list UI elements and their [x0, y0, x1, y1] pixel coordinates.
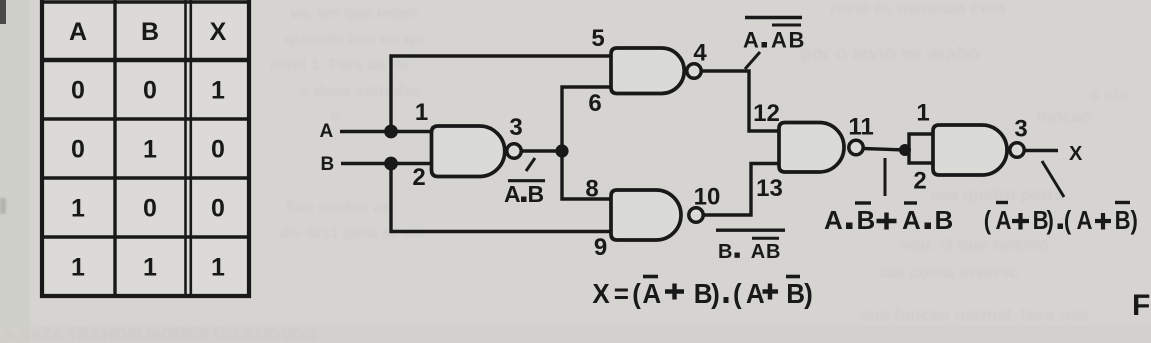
- table row line 3: [41, 176, 252, 179]
- svg-text:1: 1: [71, 254, 85, 282]
- svg-text:por o levio es arabo: por o levio es arabo: [800, 44, 980, 65]
- svg-text:0: 0: [143, 77, 157, 105]
- left edge marks: [0, 198, 6, 214]
- node U4 output junction: [899, 144, 911, 156]
- svg-text:1: 1: [916, 100, 929, 127]
- left edge dark mark: [0, 0, 6, 24]
- table left border: [40, 0, 44, 298]
- svg-text:4: 4: [693, 40, 707, 67]
- table row line 4: [41, 235, 252, 238]
- wire feedback bracket to U5 pins 1 and 2: [909, 134, 933, 163]
- svg-text:sua funcao normal. Isso nos: sua funcao normal. Isso nos: [860, 305, 1090, 324]
- svg-text:0: 0: [71, 136, 85, 164]
- svg-text:nivel es meninas t'em: nivel es meninas t'em: [830, 0, 1005, 18]
- svg-text:A: A: [320, 121, 334, 142]
- svg-text:9: 9: [594, 234, 607, 261]
- table bottom border: [41, 294, 252, 298]
- bar over B: [786, 275, 800, 279]
- svg-text:s ele: s ele: [1090, 85, 1128, 104]
- node B junction: [384, 157, 398, 171]
- svg-text:1: 1: [211, 77, 225, 105]
- bar over second A: [904, 201, 917, 204]
- bar over A: [643, 275, 658, 279]
- svg-text:12: 12: [753, 100, 780, 127]
- svg-text:0: 0: [71, 77, 85, 105]
- svg-text:sou. O que taremo: sou. O que taremo: [900, 235, 1049, 254]
- svg-text:X: X: [210, 18, 227, 46]
- slash connector for A.B label: [526, 158, 535, 171]
- U3 inverter bubble: [689, 208, 703, 222]
- svg-text:1: 1: [143, 254, 157, 282]
- svg-text:B: B: [141, 18, 159, 46]
- svg-text:11: 11: [848, 114, 873, 141]
- table double line B||X left: [184, 0, 187, 298]
- svg-text:do 4011 para se ob: do 4011 para se ob: [280, 225, 423, 242]
- U5 inverter bubble: [1010, 143, 1024, 157]
- svg-text:tas como inversc: tas como inversc: [880, 263, 1019, 282]
- table column line A|B: [113, 0, 116, 298]
- NAND gate U5 body: [933, 125, 1007, 175]
- svg-text:quando tem ou qu: quando tem ou qu: [285, 31, 424, 48]
- svg-text:13: 13: [756, 175, 783, 202]
- label NOT(B.NOT(AB)) at U3 output: [716, 230, 785, 263]
- wire U5 output to X: [1024, 149, 1058, 152]
- NAND gate U4 body: [779, 123, 844, 173]
- plus sign 1: [1012, 219, 1029, 223]
- label A.notB + notA.B at U4 output: [824, 158, 953, 235]
- svg-text:6: 6: [588, 90, 601, 117]
- NAND gate U3 body: [611, 190, 681, 240]
- label (notA+B).(A+notB) at U5 output: [984, 161, 1138, 235]
- svg-text:AAB: AAB: [743, 28, 804, 53]
- svg-text:1: 1: [143, 136, 157, 164]
- plus sign (wide): [877, 219, 897, 223]
- svg-text:8: 8: [585, 176, 598, 203]
- svg-text:3: 3: [1014, 116, 1027, 143]
- U4 inverter bubble: [849, 140, 863, 154]
- svg-text:Fi: Fi: [1132, 289, 1151, 322]
- bar over first B: [855, 201, 871, 204]
- wire U3 output to U4 pin 13: [703, 164, 779, 216]
- svg-text:va, em que iedes: va, em que iedes: [290, 5, 418, 22]
- plus sign 1: [665, 289, 684, 293]
- table top border: [40, 0, 251, 3]
- wire U1 output to node: [521, 149, 564, 152]
- plus sign 2: [1095, 219, 1111, 223]
- svg-text:2: 2: [913, 168, 926, 195]
- slash connector for (A+B).(A+B) label: [1042, 161, 1064, 197]
- svg-text:Sao saidas as: Sao saidas as: [285, 199, 391, 216]
- svg-text:nivel 1. Para as du: nivel 1. Para as du: [270, 57, 410, 74]
- bar over first A: [996, 201, 1008, 204]
- table header separator: [41, 58, 252, 63]
- svg-text:3: 3: [509, 114, 522, 141]
- svg-text:s duas entradas: s duas entradas: [300, 83, 422, 100]
- wire A lead: [340, 130, 432, 133]
- svg-text:0: 0: [211, 195, 225, 223]
- bar over last B: [1115, 201, 1130, 204]
- svg-text:0: 0: [143, 195, 157, 223]
- wire node to U2 pin 6 and U3 pin 8: [562, 87, 611, 199]
- label NOT(A.B) at U1 output: [504, 158, 545, 207]
- wire U2 output to U4 pin 12: [701, 71, 779, 131]
- svg-text:funcao: funcao: [1036, 107, 1092, 126]
- node U1 output junction: [555, 144, 568, 157]
- slash connector for A.AB label: [745, 52, 760, 69]
- svg-text:X: X: [1069, 143, 1083, 165]
- svg-text:1: 1: [415, 99, 428, 126]
- svg-text:1: 1: [71, 195, 85, 223]
- truth table: [40, 0, 251, 298]
- svg-text:0: 0: [211, 136, 225, 164]
- table right border: [247, 0, 251, 298]
- vertical connector bar: [884, 158, 887, 196]
- label NOT(A.NOT(AB)) at U2 output: [743, 18, 804, 70]
- table row line 2: [41, 117, 252, 120]
- wire A branch up to U2 pin 5: [391, 56, 611, 132]
- NAND gate U1 body: [432, 126, 505, 177]
- svg-text:B: B: [321, 154, 335, 175]
- svg-text:1: 1: [211, 254, 225, 282]
- svg-text:e SATA TRAHOM MODES OU AUOVOS: e SATA TRAHOM MODES OU AUOVOS: [5, 325, 317, 343]
- node A junction: [384, 125, 398, 139]
- NAND gate U2 body: [611, 48, 684, 94]
- formula X = (notA+B).(A+notB): [592, 277, 812, 310]
- svg-text:10: 10: [694, 184, 721, 211]
- svg-text:5: 5: [591, 25, 604, 52]
- svg-text:2: 2: [412, 164, 425, 191]
- wire B lead: [341, 162, 432, 165]
- wire U4 output to node: [863, 149, 906, 151]
- plus sign 2: [763, 289, 779, 293]
- table double line B||X right: [190, 0, 193, 298]
- svg-text:A: A: [69, 18, 87, 46]
- U1 inverter bubble: [507, 144, 521, 158]
- U2 inverter bubble: [687, 64, 701, 78]
- wire B branch down to U3 pin 9: [391, 164, 611, 232]
